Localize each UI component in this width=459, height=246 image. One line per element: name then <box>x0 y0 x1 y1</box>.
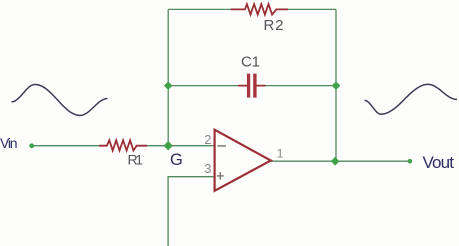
wire output row <box>271 160 410 162</box>
junction C1 left <box>164 81 172 89</box>
wire pin 3 to bottom <box>168 177 214 246</box>
wire left feedback vertical <box>167 9 169 145</box>
junction output <box>331 157 340 166</box>
svg-text:Vout: Vout <box>423 153 455 172</box>
svg-text:2: 2 <box>204 132 211 147</box>
op-amp minus sign <box>218 145 227 147</box>
svg-text:C1: C1 <box>241 54 260 71</box>
svg-text:R2: R2 <box>264 17 284 34</box>
junction C1 right <box>332 81 340 89</box>
capacitor C1 <box>238 74 266 98</box>
wire C1 row right segment <box>265 85 336 87</box>
wire right feedback vertical <box>335 9 337 161</box>
wire top feedback horizontal left segment <box>168 8 232 10</box>
svg-text:3: 3 <box>204 161 211 176</box>
svg-text:Vin: Vin <box>0 135 18 151</box>
junction G <box>164 141 173 150</box>
wire input row Vin to op-amp pin 2 <box>32 145 215 147</box>
node Vout endpoint <box>408 159 413 164</box>
resistor R1 <box>99 140 147 150</box>
wire top feedback horizontal right segment <box>287 8 336 10</box>
input sine waveform <box>12 84 108 115</box>
op-amp U1 <box>215 130 271 191</box>
svg-text:G: G <box>170 151 183 169</box>
node Vin endpoint <box>29 143 34 148</box>
resistor R2 <box>231 4 288 15</box>
wire C1 row left segment <box>168 85 238 87</box>
output sine waveform <box>365 84 458 114</box>
svg-text:1: 1 <box>277 146 284 160</box>
op-amp plus sign <box>217 172 224 180</box>
svg-text:R1: R1 <box>128 152 144 168</box>
